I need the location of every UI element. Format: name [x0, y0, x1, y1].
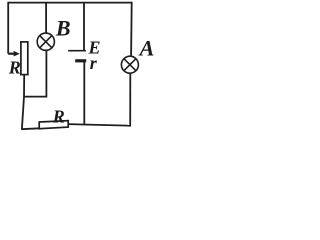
wire battery top	[83, 3, 85, 51]
wire connector B to rheostat	[24, 96, 47, 98]
wire lamp B top	[45, 3, 47, 34]
battery E short thick plate	[75, 59, 86, 62]
wire lamp B bottom	[45, 50, 47, 96]
wire battery bottom	[83, 61, 85, 125]
wire bottom left segment	[21, 127, 39, 130]
rheostat R box	[21, 42, 28, 75]
wire top frame	[8, 2, 132, 4]
wire right branch upper	[130, 2, 133, 56]
svg-text:B: B	[55, 16, 71, 41]
rheostat R1 arrow (wiper)	[8, 51, 20, 57]
lamp A	[121, 56, 138, 73]
wire rheostat down to bottom-left corner	[22, 75, 24, 130]
wire lamp A bottom / right branch lower	[129, 73, 131, 126]
svg-text:R: R	[52, 106, 65, 126]
resistor R box (bottom)	[39, 121, 68, 129]
wire left frame	[7, 2, 9, 54]
battery E long plate	[68, 50, 86, 52]
lamp B	[37, 33, 54, 50]
svg-text:R: R	[8, 58, 21, 78]
svg-text:r: r	[90, 53, 98, 73]
wire bottom right segment	[68, 124, 131, 126]
svg-text:A: A	[138, 35, 155, 60]
